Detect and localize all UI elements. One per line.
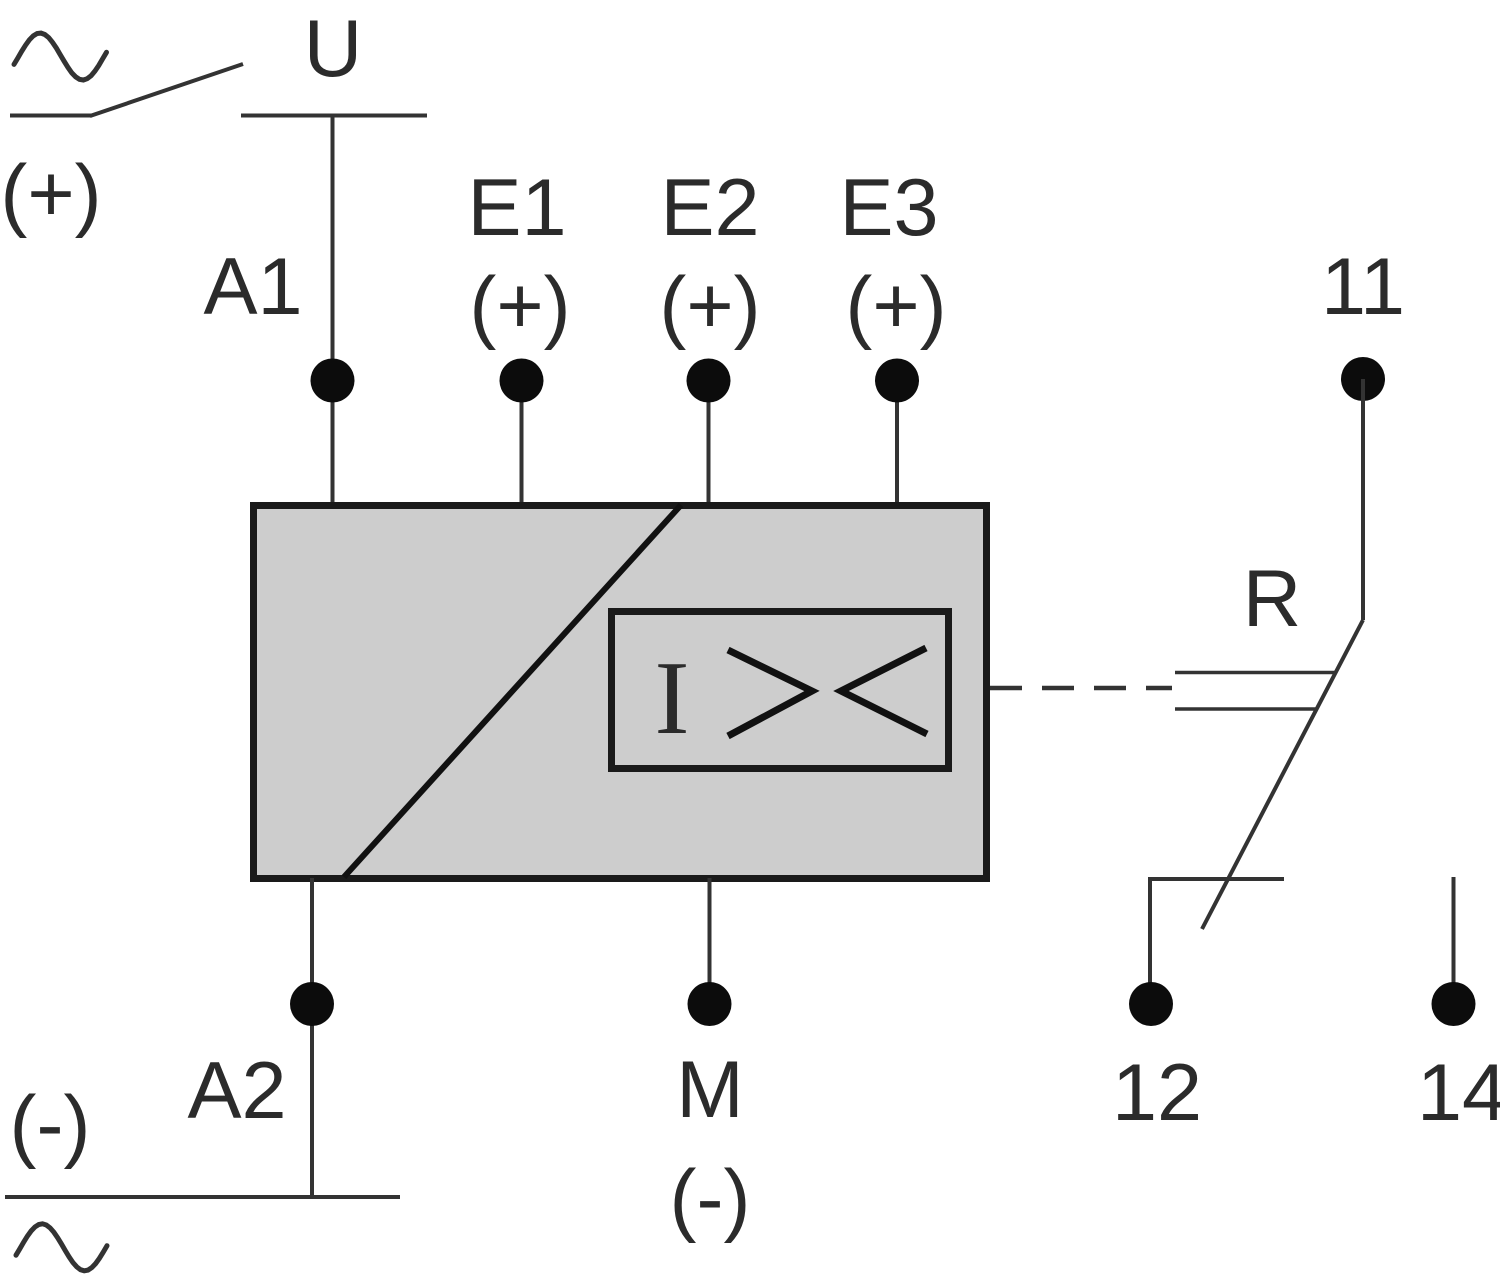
converter diagonal [344,505,681,877]
svg-text:U: U [304,4,363,94]
contact linkage line upper [1175,671,1336,675]
relay contact blade R [1202,620,1363,929]
terminal dot E2 [687,359,731,403]
contact 12 bracket [1150,879,1284,1004]
svg-text:14: 14 [1417,1048,1500,1138]
svg-text:E1: E1 [467,163,566,253]
terminal bar U [241,114,427,118]
supply return bar [5,1195,400,1199]
wire 11 [1361,379,1365,620]
actuation dashed link [990,686,1172,691]
svg-text:(+): (+) [845,261,946,351]
AC source symbol bottom-left [16,1224,107,1271]
svg-text:(+): (+) [0,149,101,239]
terminal dot 12 [1129,982,1173,1026]
terminal dot A2 [290,982,334,1026]
terminal dot A1 [311,359,355,403]
wire 14 [1452,877,1456,1004]
wire A1 [331,116,335,506]
svg-text:M: M [676,1045,743,1135]
comparator block [612,612,949,769]
terminal dot 14 [1432,982,1476,1026]
device body U1 [254,506,987,879]
svg-text:12: 12 [1112,1048,1202,1138]
AC source symbol top-left [14,33,107,80]
terminal dot M [688,982,732,1026]
wire E3 [895,380,899,505]
wire M [708,878,712,1004]
svg-text:(+): (+) [469,261,570,351]
svg-text:(-): (-) [670,1154,751,1244]
switch S1 fixed contact [10,114,92,118]
svg-text:E3: E3 [839,163,938,253]
svg-text:11: 11 [1321,242,1405,332]
svg-text:(+): (+) [659,261,760,351]
wire A2 [310,878,314,1197]
wire E2 [707,380,711,505]
comparator chevron left [841,648,927,734]
svg-text:E2: E2 [660,163,759,253]
wire E1 [520,380,524,505]
svg-text:I: I [655,639,690,756]
contact linkage line lower [1175,707,1317,711]
svg-text:A1: A1 [203,242,302,332]
svg-text:A2: A2 [187,1046,286,1136]
comparator chevron right [728,650,812,736]
terminal dot 11 [1341,357,1385,401]
switch S1 blade [90,64,243,116]
svg-text:R: R [1243,554,1302,644]
terminal dot E1 [500,359,544,403]
terminal dot E3 [875,359,919,403]
svg-text:(-): (-) [10,1080,91,1170]
